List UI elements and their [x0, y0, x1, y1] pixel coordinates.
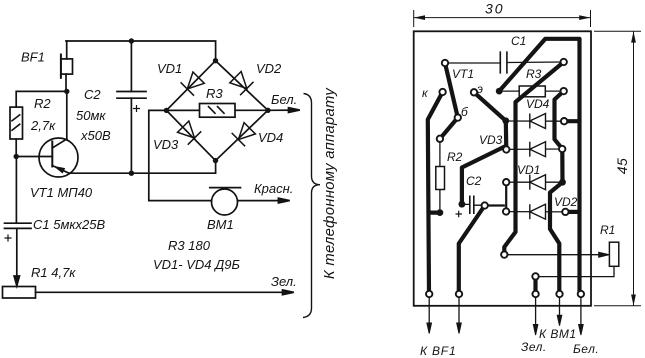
svg-text:VD4: VD4 [258, 130, 283, 145]
svg-text:C2: C2 [84, 87, 101, 102]
svg-text:2,7к: 2,7к [30, 118, 56, 133]
svg-text:VD2: VD2 [256, 61, 282, 76]
svg-text:Бел.: Бел. [573, 342, 599, 356]
svg-text:VD1- VD4 Д9Б: VD1- VD4 Д9Б [153, 257, 241, 272]
svg-text:50мк: 50мк [76, 108, 106, 123]
svg-text:C1: C1 [511, 34, 526, 48]
svg-text:VD1: VD1 [517, 163, 540, 177]
svg-text:VT1: VT1 [452, 67, 474, 81]
svg-text:R2: R2 [447, 150, 463, 164]
svg-text:R3: R3 [526, 67, 542, 81]
svg-text:Зел.: Зел. [271, 274, 297, 289]
svg-text:BM1: BM1 [207, 217, 234, 232]
svg-text:К телефонному аппарату: К телефонному аппарату [322, 87, 338, 279]
svg-text:45: 45 [614, 158, 630, 175]
svg-text:К BM1: К BM1 [539, 327, 577, 341]
svg-text:R3 180: R3 180 [168, 238, 211, 253]
svg-text:Бел.: Бел. [271, 92, 297, 107]
svg-text:Красн.: Красн. [254, 181, 293, 196]
svg-text:BF1: BF1 [21, 50, 45, 65]
svg-text:э: э [477, 82, 483, 96]
svg-text:R1: R1 [600, 223, 615, 237]
svg-text:VD4: VD4 [526, 97, 550, 111]
svg-text:R2: R2 [34, 96, 51, 111]
svg-text:R3: R3 [206, 86, 223, 101]
svg-text:К BF1: К BF1 [420, 344, 456, 358]
svg-text:30: 30 [485, 1, 505, 17]
svg-text:R1 4,7к: R1 4,7к [31, 265, 76, 280]
svg-text:VD3: VD3 [153, 137, 179, 152]
svg-text:C2: C2 [466, 174, 482, 188]
svg-text:VD3: VD3 [479, 133, 503, 147]
svg-text:VD2: VD2 [554, 195, 578, 209]
svg-text:C1 5мкх25В: C1 5мкх25В [33, 217, 105, 232]
svg-text:х50В: х50В [80, 128, 111, 143]
svg-text:Зел.: Зел. [521, 340, 547, 354]
svg-text:VT1 МП40: VT1 МП40 [30, 185, 93, 200]
svg-text:VD1: VD1 [157, 61, 182, 76]
